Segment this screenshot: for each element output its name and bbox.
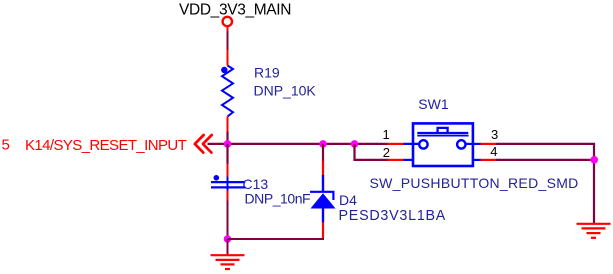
net label K14/SYS_RESET_INPUT bbox=[25, 137, 187, 154]
diode D4 designator label bbox=[339, 192, 357, 208]
capacitor C13 designator label bbox=[243, 176, 269, 192]
power port VDD_3V3_MAIN circle symbol bbox=[223, 17, 232, 32]
wire ground junction to ground symbol bbox=[227, 239, 229, 255]
wire C13 to ground junction bbox=[227, 201, 229, 240]
wire SW1 pin 4 to right ground bbox=[496, 159, 594, 161]
svg-text:1: 1 bbox=[382, 127, 389, 142]
wire jog from SW1 junction down to pin 2 row bbox=[355, 144, 389, 160]
capacitor C13 value label DNP_10nF bbox=[245, 191, 311, 207]
switch SW1 pin number 3 bbox=[491, 127, 498, 142]
power port VDD_3V3_MAIN label bbox=[179, 1, 291, 18]
junction right ground node bbox=[590, 156, 598, 164]
svg-text:R19: R19 bbox=[254, 65, 280, 81]
wire SW1 pin 3 to right ground bbox=[496, 144, 594, 224]
switch SW1 pin 2 stub bbox=[388, 159, 404, 161]
diode D4 value label PESD3V3L1BA bbox=[339, 208, 447, 224]
wire VDD_3V3_MAIN to R19 pin 2 bbox=[227, 32, 229, 51]
svg-text:D4: D4 bbox=[339, 192, 357, 208]
switch SW1 pin number 1 bbox=[382, 127, 389, 142]
switch SW1 pin number 2 bbox=[383, 145, 390, 160]
resistor R19 designator label bbox=[254, 65, 280, 81]
ground symbol right bbox=[577, 224, 611, 238]
svg-text:K14/SYS_RESET_INPUT: K14/SYS_RESET_INPUT bbox=[25, 137, 187, 154]
switch SW1 pushbutton symbol bbox=[403, 123, 481, 166]
off-sheet connector chevron bbox=[195, 135, 212, 153]
svg-text:3: 3 bbox=[491, 127, 498, 142]
svg-text:SW_PUSHBUTTON_RED_SMD: SW_PUSHBUTTON_RED_SMD bbox=[370, 175, 579, 191]
junction ground node below C13 bbox=[224, 235, 232, 243]
wire net SYS_RESET horizontal main bbox=[208, 143, 389, 145]
resistor R19 value label DNP_10K bbox=[254, 82, 317, 98]
switch SW1 value label SW_PUSHBUTTON_RED_SMD bbox=[370, 175, 579, 191]
svg-text:4: 4 bbox=[490, 144, 497, 159]
switch SW1 pin 4 stub bbox=[481, 159, 497, 161]
ground symbol below C13 bbox=[211, 255, 245, 269]
svg-text:DNP_10nF: DNP_10nF bbox=[245, 191, 311, 207]
wire SYS_RESET down to C13 bbox=[226, 144, 228, 164]
resistor R19 bbox=[221, 50, 233, 132]
svg-text:PESD3V3L1BA: PESD3V3L1BA bbox=[339, 208, 447, 224]
junction node SYS_RESET at D4 branch bbox=[319, 140, 327, 148]
junction node SYS_RESET at C13 branch bbox=[224, 140, 232, 148]
sheet entry pin number 5 bbox=[2, 136, 10, 153]
svg-text:SW1: SW1 bbox=[418, 96, 449, 112]
wire SYS_RESET down to D4 cathode bbox=[322, 144, 324, 161]
switch SW1 pin number 4 bbox=[490, 144, 497, 159]
svg-text:2: 2 bbox=[383, 145, 390, 160]
svg-text:VDD_3V3_MAIN: VDD_3V3_MAIN bbox=[179, 1, 291, 18]
switch SW1 pin 3 stub bbox=[481, 143, 497, 145]
svg-text:5: 5 bbox=[2, 136, 10, 153]
diode D4 TVS PESD3V3L1BA bbox=[310, 161, 336, 238]
capacitor C13 bbox=[211, 164, 245, 202]
junction node SYS_RESET at SW1 branch bbox=[351, 140, 359, 148]
switch SW1 pin 1 stub bbox=[388, 143, 404, 145]
wire ground node to D4 anode bbox=[228, 237, 324, 239]
svg-text:DNP_10K: DNP_10K bbox=[254, 82, 317, 98]
wire R19 pin 1 to node SYS_RESET bbox=[226, 132, 228, 145]
switch SW1 designator label bbox=[418, 96, 449, 112]
